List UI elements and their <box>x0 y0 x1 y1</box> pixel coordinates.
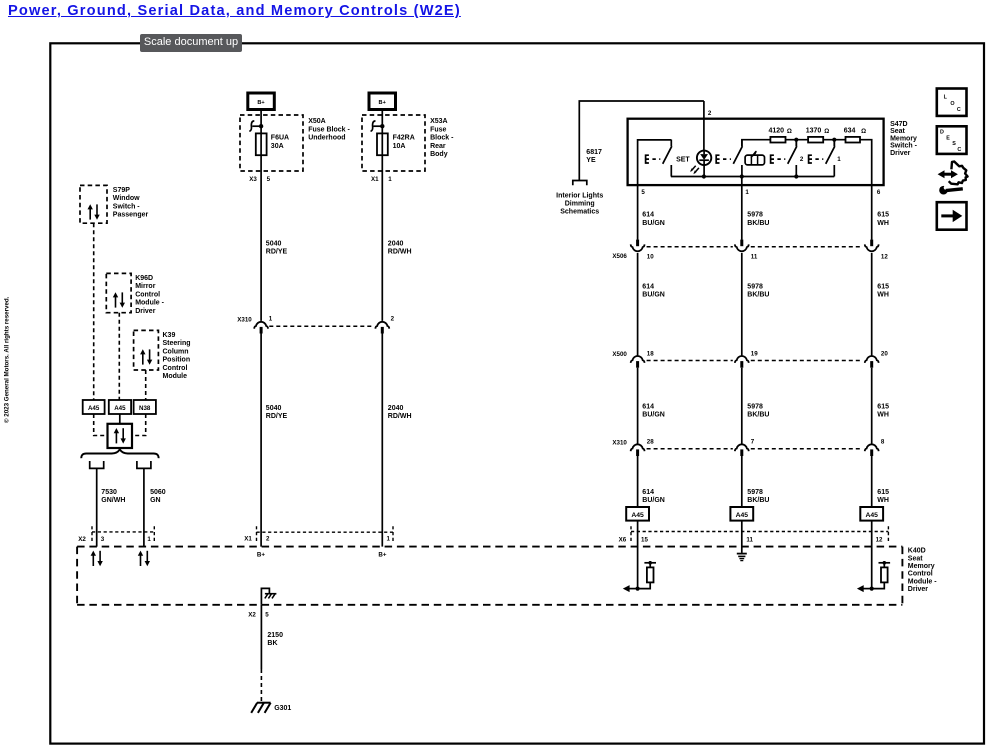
svg-text:Column: Column <box>163 348 189 355</box>
wire 7530 GN/WH <box>97 468 126 546</box>
svg-text:6: 6 <box>877 189 881 196</box>
memory switch M with seat icon <box>716 140 770 177</box>
svg-text:Mirror: Mirror <box>135 283 156 290</box>
svg-text:1: 1 <box>387 536 391 543</box>
connector A45 (left 1) <box>83 400 105 414</box>
icon: next arrow <box>937 202 967 230</box>
svg-text:Switch -: Switch - <box>113 203 141 210</box>
svg-text:X3: X3 <box>249 176 257 183</box>
wire 5040 RD/YE upper segment <box>261 171 287 321</box>
svg-text:12: 12 <box>876 536 883 543</box>
K40D pull-up and output arrow (615) <box>857 561 890 592</box>
svg-text:Ω: Ω <box>787 128 792 135</box>
seat memory switch S47D box <box>628 119 918 185</box>
svg-text:5978: 5978 <box>747 489 763 496</box>
svg-text:Module: Module <box>163 373 188 380</box>
svg-text:X1: X1 <box>244 536 252 543</box>
svg-text:BK/BU: BK/BU <box>747 497 769 504</box>
K40D internal signal ground (5978) <box>737 553 747 561</box>
wire 6817 YE to interior lights dimming <box>579 101 704 181</box>
svg-text:BK/BU: BK/BU <box>747 292 769 299</box>
svg-text:Block -: Block - <box>430 135 454 142</box>
svg-text:Module -: Module - <box>135 300 164 307</box>
svg-text:4120: 4120 <box>769 127 785 134</box>
svg-text:1: 1 <box>745 189 749 196</box>
svg-text:BU/GN: BU/GN <box>642 220 665 227</box>
svg-text:X1: X1 <box>371 176 379 183</box>
svg-text:634: 634 <box>844 127 856 134</box>
dashed wire S79P to A45 <box>93 223 95 400</box>
svg-text:614: 614 <box>642 489 654 496</box>
svg-text:5: 5 <box>267 176 271 183</box>
svg-text:D: D <box>940 130 944 136</box>
svg-text:2: 2 <box>708 110 712 117</box>
fuse F6UA 30A <box>250 121 289 171</box>
svg-text:Fuse: Fuse <box>430 126 446 133</box>
svg-text:Control: Control <box>908 571 933 578</box>
connector X6 row <box>619 526 889 543</box>
svg-text:B+: B+ <box>379 100 387 106</box>
svg-text:Window: Window <box>113 195 140 202</box>
resistor 1370 ohm <box>806 127 846 142</box>
svg-text:19: 19 <box>751 350 758 357</box>
svg-text:BK: BK <box>267 640 277 647</box>
fuse block X50A dashed box <box>240 115 350 183</box>
terminal A45 (614) <box>626 507 649 589</box>
svg-text:7530: 7530 <box>101 489 117 496</box>
window switch S79P dashed box <box>80 185 148 223</box>
svg-text:X310: X310 <box>237 316 252 323</box>
svg-text:L: L <box>944 95 948 101</box>
svg-text:1: 1 <box>269 315 273 322</box>
connector X310 row (left pair) <box>237 315 394 333</box>
pin 1 wire / wire 5978 BK/BU seg0 <box>742 177 770 240</box>
svg-text:30A: 30A <box>271 143 284 150</box>
svg-text:Underhood: Underhood <box>308 135 345 142</box>
svg-text:YE: YE <box>586 157 596 164</box>
svg-text:Driver: Driver <box>908 586 929 593</box>
svg-text:614: 614 <box>642 212 654 219</box>
svg-text:5978: 5978 <box>747 283 763 290</box>
svg-text:20: 20 <box>881 350 888 357</box>
svg-text:F6UA: F6UA <box>271 135 289 142</box>
tooltip "Scale document up" <box>140 34 242 52</box>
svg-text:RD/WH: RD/WH <box>388 249 412 256</box>
K40D module boundary <box>77 547 937 605</box>
svg-text:5978: 5978 <box>747 212 763 219</box>
off-page symbol interior lights <box>573 181 587 186</box>
svg-text:6817: 6817 <box>586 149 602 156</box>
svg-text:Driver: Driver <box>890 150 911 157</box>
dashed stub N38 into drive box <box>132 414 146 436</box>
resistor 634 ohm <box>844 127 872 185</box>
svg-text:Body: Body <box>430 151 448 158</box>
pin 2 wire into LED <box>704 101 712 151</box>
svg-text:5: 5 <box>265 612 269 619</box>
svg-text:Fuse Block -: Fuse Block - <box>308 126 350 133</box>
svg-text:A45: A45 <box>88 405 100 412</box>
svg-text:1: 1 <box>147 536 151 543</box>
svg-text:15: 15 <box>641 536 648 543</box>
svg-text:K39: K39 <box>163 332 176 339</box>
svg-text:E: E <box>946 135 950 141</box>
svg-text:Seat: Seat <box>908 555 923 562</box>
connector X2-5 at module bottom <box>248 612 269 619</box>
svg-text:BK/BU: BK/BU <box>747 220 769 227</box>
svg-text:GN: GN <box>150 497 161 504</box>
svg-text:1: 1 <box>388 176 392 183</box>
icon: repair instructions (wrench) <box>938 162 968 195</box>
svg-text:X6: X6 <box>619 536 627 543</box>
svg-text:615: 615 <box>877 212 889 219</box>
svg-text:614: 614 <box>642 403 654 410</box>
memory switch 1 <box>809 140 842 177</box>
svg-text:615: 615 <box>877 283 889 290</box>
svg-text:BU/GN: BU/GN <box>642 497 665 504</box>
svg-text:X50A: X50A <box>308 118 326 125</box>
svg-text:BK/BU: BK/BU <box>747 412 769 419</box>
svg-text:S: S <box>952 141 956 147</box>
svg-text:Position: Position <box>163 357 191 364</box>
svg-text:SET: SET <box>676 156 690 163</box>
svg-text:X2: X2 <box>248 612 256 619</box>
svg-text:G301: G301 <box>274 705 291 712</box>
svg-text:Memory: Memory <box>908 563 935 570</box>
power B+ terminal feeding fuse F42RA <box>369 93 396 133</box>
svg-text:© 2023 General Motors. All ri: © 2023 General Motors. All rights reserv… <box>4 296 11 423</box>
wire 615 WH seg1 <box>872 253 889 356</box>
pin 6 wire / wire 615 WH seg0 <box>872 185 889 240</box>
svg-text:615: 615 <box>877 489 889 496</box>
svg-text:C: C <box>957 107 961 113</box>
svg-text:2040: 2040 <box>388 405 404 412</box>
svg-text:12: 12 <box>881 253 888 260</box>
svg-text:A45: A45 <box>865 512 878 519</box>
svg-text:2040: 2040 <box>388 241 404 248</box>
svg-text:Memory: Memory <box>890 135 917 142</box>
svg-text:Module -: Module - <box>908 578 937 585</box>
svg-text:5060: 5060 <box>150 489 166 496</box>
K40D internal chassis ground to X2-5 <box>261 588 276 604</box>
svg-text:28: 28 <box>647 439 654 446</box>
svg-text:5978: 5978 <box>747 403 763 410</box>
wire 5060 GN <box>144 468 166 546</box>
terminal A45 (615) <box>860 507 883 589</box>
svg-text:WH: WH <box>877 292 889 299</box>
svg-text:RD/WH: RD/WH <box>388 413 412 420</box>
svg-text:N38: N38 <box>139 405 151 412</box>
wire 614 BU/GN seg3 <box>638 456 665 507</box>
wire 5978 BK/BU seg2 <box>742 368 770 444</box>
svg-text:10A: 10A <box>393 143 406 150</box>
svg-text:2150: 2150 <box>267 632 283 639</box>
K40D internal drive arrows (window) <box>91 551 103 567</box>
connector X1 row <box>244 526 393 558</box>
SET switch S1 <box>638 140 691 186</box>
svg-text:B+: B+ <box>257 552 265 559</box>
svg-text:5040: 5040 <box>266 405 282 412</box>
wire 5978 BK/BU seg3 <box>742 456 770 507</box>
K40D pull-up and output arrow (614) <box>623 561 656 592</box>
brace grouping outputs <box>81 449 158 458</box>
svg-text:A45: A45 <box>631 512 644 519</box>
bidirectional drive box <box>108 424 133 448</box>
wire 615 WH seg3 <box>872 456 889 507</box>
svg-text:WH: WH <box>877 412 889 419</box>
svg-text:5040: 5040 <box>266 241 282 248</box>
svg-text:Interior Lights: Interior Lights <box>556 192 603 199</box>
svg-text:S79P: S79P <box>113 187 130 194</box>
connector X310 row (right) <box>612 439 885 456</box>
svg-text:11: 11 <box>751 253 758 260</box>
wire 614 BU/GN seg1 <box>638 253 665 356</box>
LED indicator <box>690 151 711 177</box>
svg-text:Control: Control <box>163 365 188 372</box>
fuse block X53A dashed box <box>362 115 454 183</box>
mirror control module K96D dashed box <box>106 273 164 314</box>
steering column position control module K39 dashed box <box>134 330 191 380</box>
icon: location (LOC) <box>937 89 967 116</box>
svg-text:BU/GN: BU/GN <box>642 292 665 299</box>
splice funnel left <box>90 461 104 468</box>
wire 5978 BK/BU seg1 <box>742 253 770 356</box>
svg-text:Dimming: Dimming <box>565 201 595 208</box>
svg-text:Switch -: Switch - <box>890 143 918 150</box>
svg-text:614: 614 <box>642 283 654 290</box>
svg-text:18: 18 <box>647 350 654 357</box>
svg-text:BU/GN: BU/GN <box>642 412 665 419</box>
svg-text:Driver: Driver <box>135 308 156 315</box>
svg-text:2: 2 <box>266 536 270 543</box>
wire 5040 RD/YE lower segment <box>261 334 287 547</box>
svg-text:A45: A45 <box>114 405 126 412</box>
svg-text:Schematics: Schematics <box>560 209 599 216</box>
svg-text:8: 8 <box>881 439 885 446</box>
svg-text:10: 10 <box>647 253 654 260</box>
svg-text:1370: 1370 <box>806 127 822 134</box>
wire 2040 RD/WH lower segment <box>382 334 411 547</box>
connector X506 row <box>612 240 888 261</box>
note: interior lights dimming schematics <box>556 192 603 215</box>
connector N38 <box>134 400 156 414</box>
svg-text:K40D: K40D <box>908 548 926 555</box>
wire 614 BU/GN seg2 <box>638 368 665 444</box>
svg-text:O: O <box>950 101 954 107</box>
dashed wire K96D to A45 <box>118 313 120 400</box>
svg-text:Steering: Steering <box>163 340 191 347</box>
connector A45 (left 2) <box>109 400 131 414</box>
svg-text:615: 615 <box>877 403 889 410</box>
svg-text:A45: A45 <box>736 512 749 519</box>
svg-text:Seat: Seat <box>890 128 905 135</box>
svg-text:X500: X500 <box>612 351 627 358</box>
icon: description (DESC) <box>937 126 967 154</box>
splice funnel right <box>137 461 151 468</box>
svg-text:B+: B+ <box>378 552 386 559</box>
svg-text:X310: X310 <box>612 439 627 446</box>
power B+ terminal feeding fuse F6UA <box>248 93 274 133</box>
svg-text:11: 11 <box>746 536 753 543</box>
svg-text:2: 2 <box>800 156 804 163</box>
resistor 4120 ohm <box>769 127 809 142</box>
svg-text:2: 2 <box>391 315 395 322</box>
svg-text:1: 1 <box>837 156 841 163</box>
svg-text:Ω: Ω <box>824 128 829 135</box>
svg-text:7: 7 <box>751 439 755 446</box>
svg-text:WH: WH <box>877 497 889 504</box>
page title <box>8 3 461 19</box>
svg-text:WH: WH <box>877 220 889 227</box>
connector X500 row <box>612 350 888 367</box>
svg-text:X506: X506 <box>612 253 627 260</box>
svg-text:X2: X2 <box>78 536 86 543</box>
connector X2 row (left) <box>78 526 154 543</box>
terminal A45 (5978) <box>730 507 753 553</box>
fuse F42RA 10A <box>371 121 415 171</box>
svg-text:Control: Control <box>135 291 160 298</box>
svg-text:Rear: Rear <box>430 143 446 150</box>
wire 2040 RD/WH upper segment <box>382 171 411 321</box>
wire 2150 BK <box>261 605 283 702</box>
memory switch 2 <box>771 140 804 177</box>
svg-text:3: 3 <box>101 536 105 543</box>
dashed stub A45-1 into drive box <box>94 414 108 436</box>
svg-text:S47D: S47D <box>890 121 908 128</box>
svg-text:Passenger: Passenger <box>113 212 149 219</box>
internal bus to bottom contacts <box>671 174 834 178</box>
K40D internal drive arrows (mirror) <box>138 551 150 567</box>
svg-text:F42RA: F42RA <box>393 135 415 142</box>
svg-text:C: C <box>957 147 961 153</box>
pin 5 wire / wire 614 BU/GN seg0 <box>638 185 665 240</box>
svg-text:X53A: X53A <box>430 118 448 125</box>
svg-text:Ω: Ω <box>861 128 866 135</box>
ground G301 <box>251 703 291 713</box>
seat memory button icon <box>745 151 764 165</box>
svg-text:RD/YE: RD/YE <box>266 413 288 420</box>
svg-text:B+: B+ <box>257 100 265 106</box>
svg-text:5: 5 <box>641 189 645 196</box>
svg-text:RD/YE: RD/YE <box>266 249 288 256</box>
dashed wire K39 to N38 <box>145 370 147 400</box>
stub A45-2 into drive box <box>119 414 121 424</box>
wire 615 WH seg2 <box>872 368 889 444</box>
svg-text:GN/WH: GN/WH <box>101 497 125 504</box>
svg-text:K96D: K96D <box>135 275 153 282</box>
